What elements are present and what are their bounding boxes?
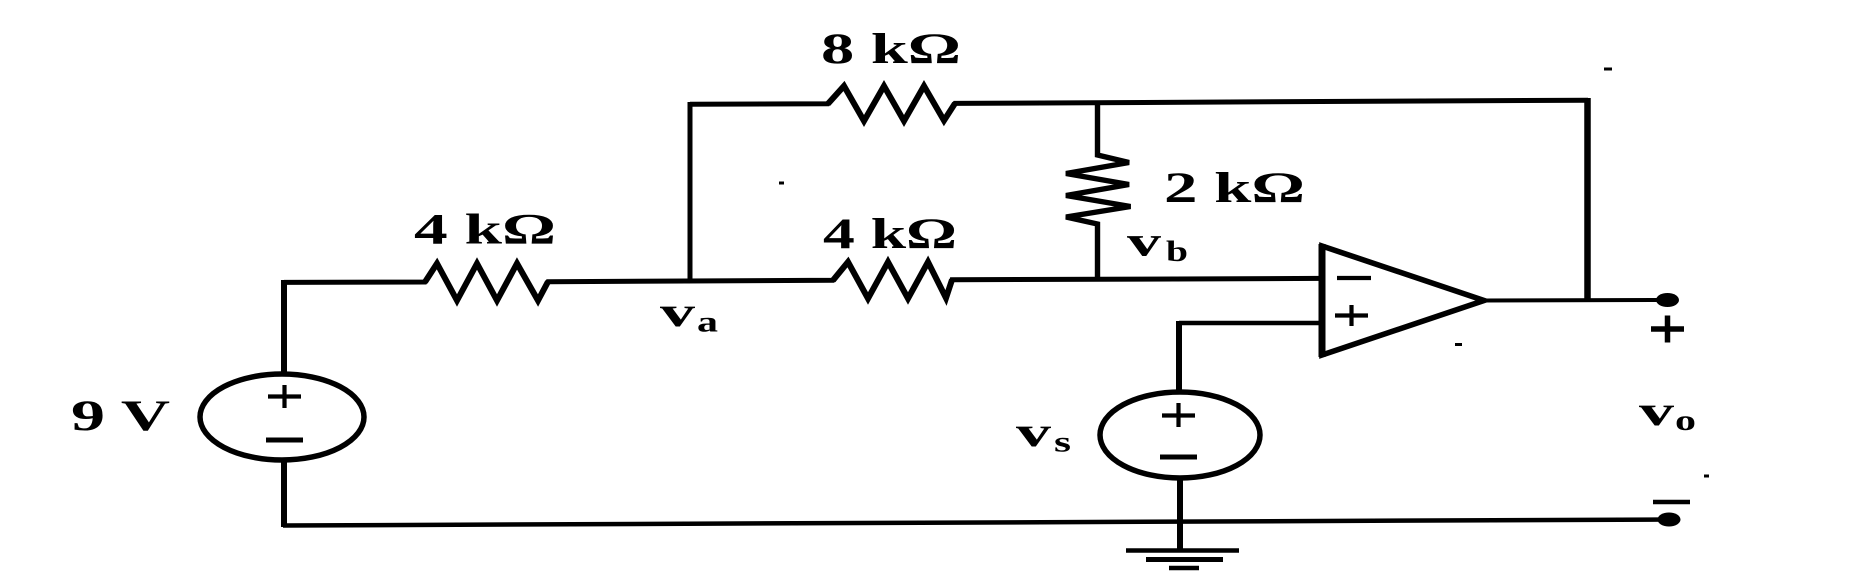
- svg-text:v: v: [1016, 410, 1051, 456]
- svg-text:9 V: 9 V: [71, 393, 170, 440]
- svg-text:v: v: [1127, 220, 1161, 266]
- svg-text:b: b: [1166, 235, 1188, 268]
- svg-text:2 kΩ: 2 kΩ: [1164, 165, 1305, 212]
- svg-text:8 kΩ: 8 kΩ: [821, 26, 961, 73]
- svg-text:v: v: [1639, 389, 1674, 435]
- svg-text:4 kΩ: 4 kΩ: [823, 211, 957, 258]
- svg-text:a: a: [697, 306, 718, 339]
- svg-text:v: v: [660, 290, 695, 336]
- svg-text:s: s: [1054, 426, 1071, 459]
- svg-text:o: o: [1675, 404, 1696, 437]
- svg-text:4 kΩ: 4 kΩ: [414, 207, 556, 254]
